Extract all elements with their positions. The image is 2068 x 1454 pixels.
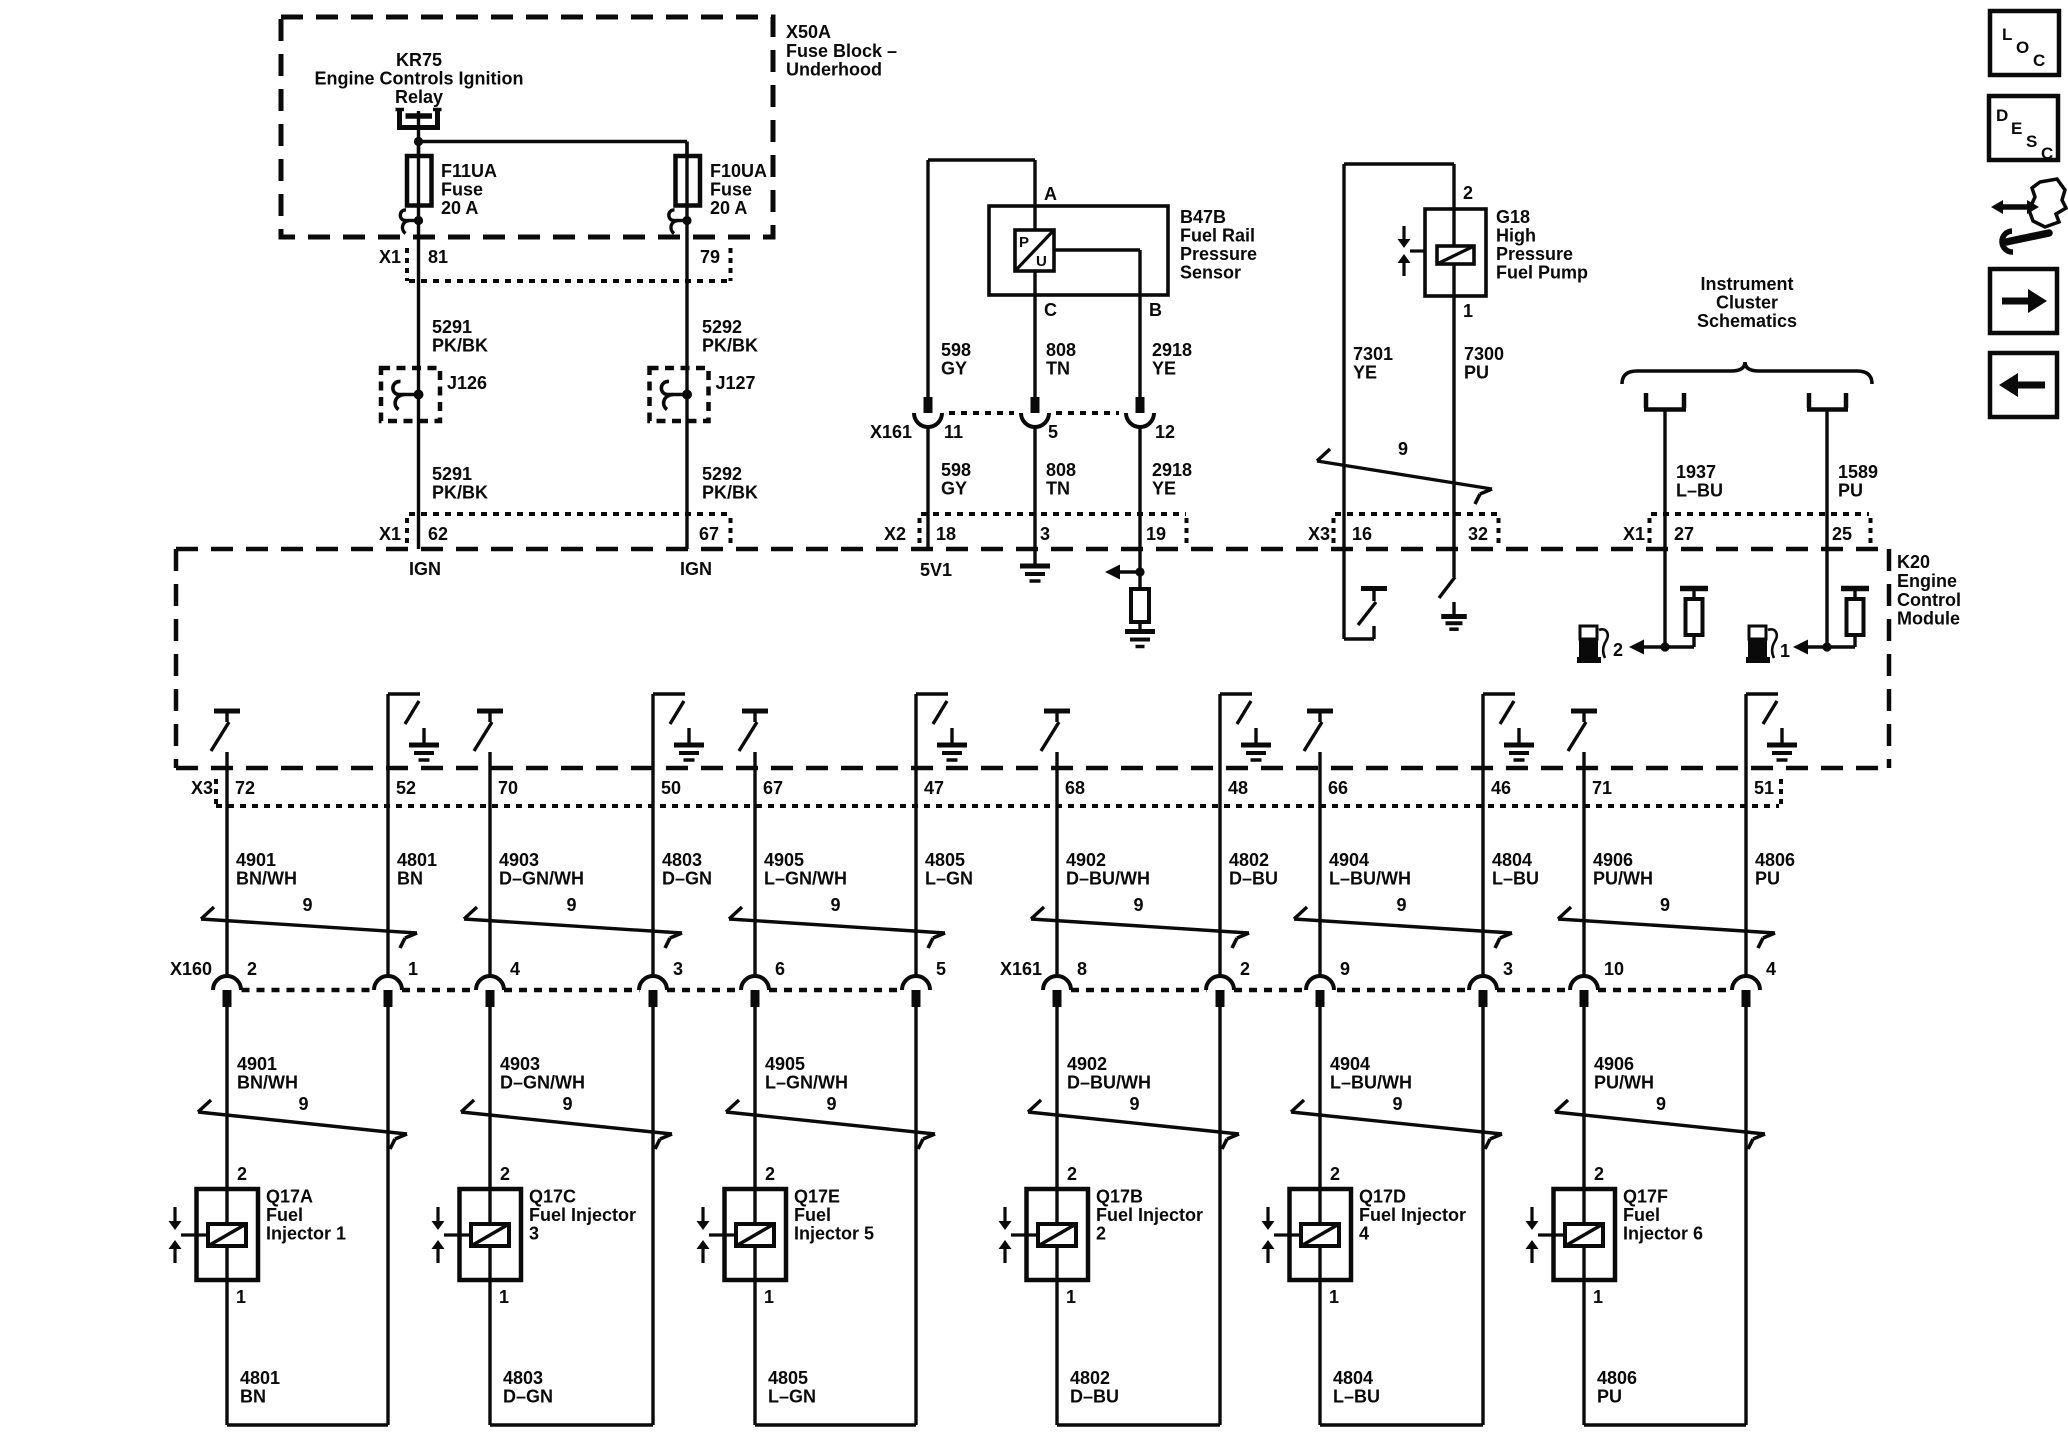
svg-text:Q17E: Q17E <box>794 1187 840 1207</box>
svg-text:X3: X3 <box>191 778 213 798</box>
wire 598 GY top run <box>928 160 1035 397</box>
wire pump pin 2 <box>1454 164 1473 209</box>
wire 4802 D–BU injector return loop <box>1057 1007 1220 1425</box>
ECM high-side driver (pin 70) <box>474 711 503 751</box>
svg-text:C: C <box>2041 144 2053 163</box>
svg-text:1: 1 <box>1066 1287 1076 1307</box>
connector X160 / X161 dotted row <box>170 959 1733 990</box>
arrow to other circuit (2918) <box>1105 565 1145 580</box>
svg-text:PK/BK: PK/BK <box>432 336 488 356</box>
in-line connector pin 2 (return) <box>1206 959 1250 1007</box>
svg-text:P: P <box>1019 234 1029 251</box>
injector Q17B coil <box>1038 1189 1076 1280</box>
svg-text:6: 6 <box>775 959 785 979</box>
splice J126 <box>381 368 487 421</box>
ECM high-side driver (pin 68) <box>1041 711 1070 751</box>
svg-text:598: 598 <box>941 340 971 360</box>
wire 4803 D–GN X160 to ECM <box>653 768 712 977</box>
svg-text:66: 66 <box>1328 778 1348 798</box>
wire 4903 D–GN/WH X160 to injector <box>490 1007 585 1189</box>
svg-text:4802: 4802 <box>1070 1368 1110 1388</box>
svg-text:BN/WH: BN/WH <box>236 869 297 889</box>
svg-text:D–BU: D–BU <box>1070 1387 1119 1407</box>
injector Q17B pin 1 <box>1066 1287 1076 1307</box>
injector Q17B pin 2 <box>1067 1164 1077 1184</box>
svg-text:9: 9 <box>1660 895 1670 915</box>
wire 1589 PU <box>1827 411 1878 549</box>
in-line connector pin 5 (return) <box>902 959 946 1007</box>
svg-text:9: 9 <box>830 895 840 915</box>
harness crossing 9 (upper) <box>1294 895 1512 948</box>
brace over cluster wires <box>1622 362 1872 384</box>
svg-text:4904: 4904 <box>1329 850 1369 870</box>
ground (ECM driver) <box>1767 728 1797 760</box>
node X3 pin 71 <box>1592 778 1612 798</box>
label K20 Engine Control Module <box>1897 552 1961 629</box>
pump G18 box <box>1425 209 1486 296</box>
svg-text:X2: X2 <box>884 524 906 544</box>
relay KR75 contact symbol <box>396 109 442 128</box>
svg-text:4903: 4903 <box>500 1054 540 1074</box>
svg-text:20 A: 20 A <box>441 198 478 218</box>
svg-text:PK/BK: PK/BK <box>702 483 758 503</box>
wire A into sensor <box>1035 160 1057 230</box>
label F11UA Fuse 20 A <box>441 161 497 218</box>
svg-text:PU: PU <box>1597 1387 1622 1407</box>
svg-text:2: 2 <box>1096 1224 1106 1244</box>
svg-text:Fuel: Fuel <box>1623 1205 1660 1225</box>
svg-text:72: 72 <box>235 778 255 798</box>
svg-text:BN: BN <box>240 1387 266 1407</box>
net 5V1 label <box>920 560 952 580</box>
svg-text:9: 9 <box>826 1094 836 1114</box>
wire 7301 YE top run <box>1344 164 1454 549</box>
node X3 pin 72 <box>235 778 255 798</box>
fuel pump icon 1 <box>1746 626 1777 663</box>
wire relay to fuse F11UA <box>417 111 420 156</box>
injector Q17F body <box>1554 1189 1616 1280</box>
injector Q17D pin 2 <box>1330 1164 1340 1184</box>
ground (ECM driver) <box>1504 728 1534 760</box>
svg-text:IGN: IGN <box>680 559 712 579</box>
wire 4804 L–BU injector return loop <box>1320 1007 1483 1425</box>
svg-text:8: 8 <box>1077 959 1087 979</box>
svg-text:X1: X1 <box>379 247 401 267</box>
wire 4904 L–BU/WH X160 to injector <box>1320 1007 1412 1189</box>
wire 4804 L–BU X160 to ECM <box>1483 768 1539 977</box>
svg-text:L–GN/WH: L–GN/WH <box>764 869 847 889</box>
ECM high-side driver (pin 72) <box>211 711 240 751</box>
wire 4801 BN X160 to ECM <box>388 768 437 977</box>
svg-text:Fuel Injector: Fuel Injector <box>1096 1205 1203 1225</box>
svg-text:C: C <box>1044 300 1057 320</box>
labels 7301 YE / 7300 PU <box>1353 344 1504 383</box>
harness crossing 9 (pump) <box>1317 439 1492 504</box>
svg-text:2: 2 <box>1067 1164 1077 1184</box>
svg-text:PU/WH: PU/WH <box>1593 869 1653 889</box>
wire 4805 L–GN X160 to ECM <box>916 768 973 977</box>
svg-text:1: 1 <box>1780 641 1790 661</box>
svg-text:19: 19 <box>1146 524 1166 544</box>
connector X1 row pins 81 / 79 <box>379 247 731 281</box>
resistor (fuel sender 2) <box>1680 589 1708 648</box>
harness crossing 9 (lower) <box>726 1094 935 1149</box>
label Instrument Cluster Schematics <box>1697 274 1797 331</box>
svg-text:X160: X160 <box>170 959 212 979</box>
node X3 pin 46 <box>1491 778 1511 798</box>
connector X1 row pins 62 / 67 (ECM) <box>379 514 731 546</box>
svg-text:PK/BK: PK/BK <box>702 336 758 356</box>
pump valve arrows <box>1398 226 1426 276</box>
injector Q17B valve arrows <box>999 1207 1039 1263</box>
svg-text:2: 2 <box>500 1164 510 1184</box>
svg-text:Q17B: Q17B <box>1096 1187 1143 1207</box>
svg-text:D–BU/WH: D–BU/WH <box>1066 869 1150 889</box>
wire 4905 L–GN/WH X160 to injector <box>755 1007 848 1189</box>
in-line connector pin 1 (return) <box>374 959 418 1007</box>
injector Q17B body <box>1027 1189 1089 1280</box>
node X3 pin 51 <box>1754 778 1774 798</box>
svg-text:4801: 4801 <box>240 1368 280 1388</box>
svg-text:67: 67 <box>699 524 719 544</box>
svg-text:9: 9 <box>302 895 312 915</box>
in-line connector pin 4 (feed) <box>476 959 520 1007</box>
svg-text:TN: TN <box>1046 359 1070 379</box>
svg-text:5291: 5291 <box>432 317 472 337</box>
svg-text:L–BU/WH: L–BU/WH <box>1329 869 1411 889</box>
ECM K20 dashed border <box>176 549 1889 768</box>
wire 2918 YE lower segment <box>1138 427 1141 550</box>
svg-text:X161: X161 <box>870 422 912 442</box>
injector Q17D pin 1 <box>1329 1287 1339 1307</box>
svg-text:YE: YE <box>1353 363 1377 383</box>
svg-text:X1: X1 <box>1623 524 1645 544</box>
svg-text:PK/BK: PK/BK <box>432 483 488 503</box>
resistor (fuel sender 1) <box>1841 589 1869 648</box>
wire relay output to F10UA branch <box>419 142 688 157</box>
pump coil <box>1437 209 1474 296</box>
svg-text:L–BU: L–BU <box>1676 481 1723 501</box>
svg-text:47: 47 <box>924 778 944 798</box>
svg-text:B: B <box>1149 300 1162 320</box>
svg-text:Pressure: Pressure <box>1496 244 1573 264</box>
svg-text:A: A <box>1044 184 1057 204</box>
ground (ECM driver) <box>937 728 967 760</box>
svg-text:Underhood: Underhood <box>786 60 882 80</box>
label 2 (fuel gauge) <box>1613 640 1623 660</box>
ECM low-side driver with ground (pin 51) <box>1746 694 1778 768</box>
svg-text:3: 3 <box>1503 959 1513 979</box>
node X3 pin 67 <box>763 778 783 798</box>
svg-text:Fuel Rail: Fuel Rail <box>1180 226 1255 246</box>
svg-text:F10UA: F10UA <box>710 161 767 181</box>
svg-text:7301: 7301 <box>1353 344 1393 364</box>
svg-text:GY: GY <box>941 359 967 379</box>
svg-text:2: 2 <box>1330 1164 1340 1184</box>
svg-text:D–GN/WH: D–GN/WH <box>499 869 584 889</box>
svg-text:Q17C: Q17C <box>529 1187 576 1207</box>
svg-text:L–GN/WH: L–GN/WH <box>765 1073 848 1093</box>
wire B from sensor <box>1054 250 1162 397</box>
injector Q17A pin 1 <box>236 1287 246 1307</box>
svg-text:79: 79 <box>700 247 720 267</box>
ECM high-side driver (pin 71) <box>1568 711 1597 751</box>
svg-text:4: 4 <box>1359 1224 1369 1244</box>
connector X3 bottom row <box>191 778 1781 806</box>
svg-text:16: 16 <box>1352 524 1372 544</box>
svg-text:4906: 4906 <box>1593 850 1633 870</box>
svg-text:L–GN: L–GN <box>768 1387 816 1407</box>
terminal hooks below fuse <box>669 210 692 234</box>
svg-text:Fuse Block –: Fuse Block – <box>786 41 897 61</box>
svg-text:4904: 4904 <box>1330 1054 1370 1074</box>
svg-text:Instrument: Instrument <box>1700 274 1793 294</box>
terminal hooks below fuse <box>400 210 423 234</box>
svg-text:2: 2 <box>1463 183 1473 203</box>
svg-text:E: E <box>2011 119 2022 138</box>
ECM low-side driver with ground (pin 47) <box>916 694 948 768</box>
svg-text:81: 81 <box>428 247 448 267</box>
svg-text:D–BU: D–BU <box>1229 869 1278 889</box>
svg-text:3: 3 <box>1040 524 1050 544</box>
injector Q17E body <box>725 1189 787 1280</box>
svg-text:Injector 5: Injector 5 <box>794 1224 874 1244</box>
svg-text:62: 62 <box>428 524 448 544</box>
svg-text:3: 3 <box>529 1224 539 1244</box>
svg-text:4905: 4905 <box>765 1054 805 1074</box>
injector Q17A coil <box>208 1189 246 1280</box>
injector Q17E coil <box>736 1189 774 1280</box>
svg-text:51: 51 <box>1754 778 1774 798</box>
svg-text:L–BU/WH: L–BU/WH <box>1330 1073 1412 1093</box>
svg-text:IGN: IGN <box>409 559 441 579</box>
ECM low-side driver with ground (pin 50) <box>653 694 685 768</box>
ECM low-side driver with ground (pin 48) <box>1220 694 1252 768</box>
svg-text:D–GN: D–GN <box>503 1387 553 1407</box>
cluster terminal cup (1937) <box>1644 393 1686 410</box>
svg-text:Control: Control <box>1897 590 1961 610</box>
svg-text:TN: TN <box>1046 479 1070 499</box>
node X3 pin 48 <box>1228 778 1248 798</box>
svg-text:20 A: 20 A <box>710 198 747 218</box>
svg-text:Q17A: Q17A <box>266 1187 313 1207</box>
svg-text:9: 9 <box>566 895 576 915</box>
svg-text:7300: 7300 <box>1464 344 1504 364</box>
wire 4806 PU injector return loop <box>1584 1007 1746 1425</box>
ECM driver for pin 32 with ground <box>1439 549 1467 629</box>
svg-text:Engine: Engine <box>1897 571 1957 591</box>
wire 4902 D–BU/WH X160 to injector <box>1057 1007 1151 1189</box>
svg-text:Fuse: Fuse <box>441 180 483 200</box>
svg-text:U: U <box>1036 253 1047 270</box>
svg-text:2: 2 <box>1613 640 1623 660</box>
harness crossing 9 (upper) <box>201 895 417 948</box>
ground inside ECM below pin 3 <box>1020 549 1050 581</box>
injector Q17C valve arrows <box>432 1207 472 1263</box>
wire pin 27 to fuel level node <box>1663 549 1666 647</box>
harness crossing 9 (lower) <box>461 1094 672 1149</box>
svg-text:25: 25 <box>1832 524 1852 544</box>
ECM low-side driver with ground (pin 52) <box>388 694 420 768</box>
sensor B47B box <box>989 206 1168 295</box>
svg-text:70: 70 <box>498 778 518 798</box>
svg-text:598: 598 <box>941 460 971 480</box>
ground (ECM driver) <box>674 728 704 760</box>
svg-text:D–BU/WH: D–BU/WH <box>1067 1073 1151 1093</box>
node X3 pin 66 <box>1328 778 1348 798</box>
svg-text:4805: 4805 <box>768 1368 808 1388</box>
svg-text:4901: 4901 <box>236 850 276 870</box>
wire 4803 D–GN injector return loop <box>490 1007 653 1425</box>
svg-text:X1: X1 <box>379 524 401 544</box>
svg-text:4806: 4806 <box>1597 1368 1637 1388</box>
svg-text:D–GN: D–GN <box>662 869 712 889</box>
svg-text:9: 9 <box>1133 895 1143 915</box>
label G18 High Pressure Fuel Pump <box>1496 207 1588 283</box>
svg-text:18: 18 <box>936 524 956 544</box>
labels 598 GY / 808 TN / 2918 YE above X161 <box>941 340 1192 379</box>
injector Q17F coil <box>1565 1189 1603 1280</box>
svg-text:9: 9 <box>1398 439 1408 459</box>
node X3 pin 52 <box>396 778 416 798</box>
sidebar DESC button <box>1989 96 2058 163</box>
in-line connector pin 9 (feed) <box>1306 959 1350 1007</box>
svg-text:O: O <box>2016 38 2029 57</box>
svg-text:D: D <box>1996 106 2008 125</box>
svg-text:2: 2 <box>237 1164 247 1184</box>
in-line connector pin 6 (feed) <box>741 959 785 1007</box>
svg-text:Pressure: Pressure <box>1180 244 1257 264</box>
svg-text:9: 9 <box>1129 1094 1139 1114</box>
ground (ECM driver) <box>409 728 439 760</box>
svg-text:2918: 2918 <box>1152 340 1192 360</box>
label X50A Fuse Block Underhood <box>786 22 897 80</box>
svg-text:4: 4 <box>1766 959 1776 979</box>
svg-text:3: 3 <box>673 959 683 979</box>
wire 5292 PK/BK lower segment <box>687 421 758 549</box>
ground (ECM driver) <box>1241 728 1271 760</box>
wire 4906 PU/WH ECM to X160 <box>1584 752 1653 977</box>
wire 1937 L-BU <box>1665 411 1723 549</box>
ECM driver for pin 16 <box>1344 549 1387 639</box>
svg-text:4804: 4804 <box>1492 850 1532 870</box>
svg-text:PU: PU <box>1838 481 1863 501</box>
in-line connector pin 4 (return) <box>1732 959 1776 1007</box>
svg-text:4804: 4804 <box>1333 1368 1373 1388</box>
svg-text:L–BU: L–BU <box>1492 869 1539 889</box>
harness crossing 9 (upper) <box>1558 895 1775 948</box>
wire 4903 D–GN/WH ECM to X160 <box>490 752 584 977</box>
svg-text:1: 1 <box>1463 301 1473 321</box>
svg-text:X3: X3 <box>1308 524 1330 544</box>
svg-text:4805: 4805 <box>925 850 965 870</box>
label F10UA Fuse 20 A <box>710 161 767 218</box>
svg-text:4906: 4906 <box>1594 1054 1634 1074</box>
svg-text:5291: 5291 <box>432 464 472 484</box>
svg-text:BN/WH: BN/WH <box>237 1073 298 1093</box>
svg-text:5: 5 <box>936 959 946 979</box>
connector X2 row pins 18 / 3 / 19 <box>884 514 1187 546</box>
svg-text:2918: 2918 <box>1152 460 1192 480</box>
in-line connector pin 2 (feed) <box>213 959 257 1007</box>
svg-text:X50A: X50A <box>786 22 831 42</box>
harness crossing 9 (lower) <box>1555 1094 1765 1149</box>
svg-text:5V1: 5V1 <box>920 560 952 580</box>
svg-text:4901: 4901 <box>237 1054 277 1074</box>
svg-text:L–GN: L–GN <box>925 869 973 889</box>
harness crossing 9 (upper) <box>464 895 682 948</box>
injector Q17A valve arrows <box>169 1207 209 1263</box>
svg-text:12: 12 <box>1155 422 1175 442</box>
wire 4904 L–BU/WH ECM to X160 <box>1320 752 1411 977</box>
wire 5291 PK/BK upper segment <box>419 221 489 369</box>
svg-text:4905: 4905 <box>764 850 804 870</box>
svg-text:Fuel: Fuel <box>794 1205 831 1225</box>
svg-text:5292: 5292 <box>702 464 742 484</box>
svg-text:1937: 1937 <box>1676 462 1716 482</box>
svg-text:Fuel Pump: Fuel Pump <box>1496 263 1588 283</box>
svg-text:2: 2 <box>765 1164 775 1184</box>
svg-text:YE: YE <box>1152 359 1176 379</box>
sidebar forward arrow button <box>1990 269 2057 333</box>
svg-text:BN: BN <box>397 869 423 889</box>
wire 4901 BN/WH X160 to injector <box>227 1007 298 1189</box>
net IGN labels <box>409 559 712 579</box>
svg-text:Cluster: Cluster <box>1716 293 1778 313</box>
svg-text:1: 1 <box>764 1287 774 1307</box>
svg-text:Fuel: Fuel <box>266 1205 303 1225</box>
injector Q17C coil <box>471 1189 509 1280</box>
node X3 pin 68 <box>1065 778 1085 798</box>
svg-text:Engine Controls Ignition: Engine Controls Ignition <box>315 69 524 89</box>
connector X1 row pins 27 / 25 <box>1623 514 1871 546</box>
wire 4805 L–GN injector return loop <box>755 1007 916 1425</box>
svg-text:B47B: B47B <box>1180 207 1226 227</box>
svg-text:2: 2 <box>247 959 257 979</box>
svg-text:808: 808 <box>1046 460 1076 480</box>
injector Q17A pin 2 <box>237 1164 247 1184</box>
wire pin 25 to fuel level node <box>1825 549 1828 647</box>
label 1 (fuel gauge) <box>1780 641 1790 661</box>
svg-text:71: 71 <box>1592 778 1612 798</box>
injector Q17F pin 2 <box>1594 1164 1604 1184</box>
injector Q17D body <box>1290 1189 1352 1280</box>
harness crossing 9 (lower) <box>1028 1094 1239 1149</box>
svg-text:Q17D: Q17D <box>1359 1187 1406 1207</box>
label B47B Fuel Rail Pressure Sensor <box>1180 207 1257 283</box>
wire 5291 PK/BK lower segment <box>419 421 489 549</box>
svg-text:1: 1 <box>236 1287 246 1307</box>
svg-text:67: 67 <box>763 778 783 798</box>
svg-text:GY: GY <box>941 479 967 499</box>
sensor P/U transducer <box>1015 230 1054 271</box>
svg-text:Injector 1: Injector 1 <box>266 1224 346 1244</box>
injector Q17E pin 2 <box>765 1164 775 1184</box>
svg-text:68: 68 <box>1065 778 1085 798</box>
labels 598 GY / 808 TN / 2918 YE below X161 <box>941 460 1192 499</box>
svg-text:Q17F: Q17F <box>1623 1187 1668 1207</box>
svg-text:9: 9 <box>1396 895 1406 915</box>
wire 4906 PU/WH X160 to injector <box>1584 1007 1654 1189</box>
wire 4801 BN injector return loop <box>227 1007 388 1425</box>
svg-text:L–BU: L–BU <box>1333 1387 1380 1407</box>
injector Q17A body <box>197 1189 259 1280</box>
injector Q17E valve arrows <box>697 1207 737 1263</box>
svg-text:4806: 4806 <box>1755 850 1795 870</box>
svg-text:1589: 1589 <box>1838 462 1878 482</box>
node X3 pin 50 <box>661 778 681 798</box>
node junction below relay <box>414 137 423 146</box>
